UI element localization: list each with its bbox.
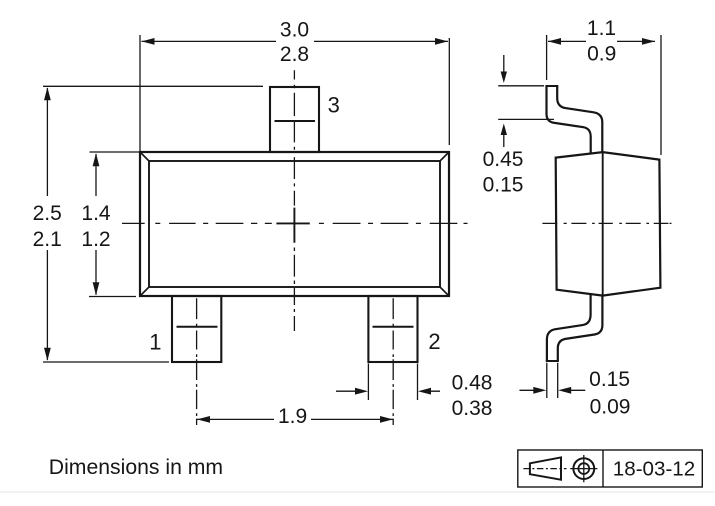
dimension 0.15/0.09 arrows (520, 387, 586, 394)
extension line top of 2.5 dim (43, 85, 263, 87)
svg-text:3.0: 3.0 (280, 19, 309, 42)
extension line pin 2 left edge (368, 364, 417, 401)
pin number 2 (428, 329, 440, 354)
package body front view outer outline (140, 152, 449, 296)
dimension 1.9 line (197, 416, 393, 423)
svg-text:0.15: 0.15 (483, 174, 524, 197)
caption Dimensions in mm (49, 456, 223, 479)
pin number 3 (328, 92, 340, 117)
extension line bottom of 2.5 dim (43, 361, 169, 363)
pin 3 / body vertical centerline (293, 70, 295, 331)
svg-text:2.5: 2.5 (33, 202, 62, 225)
pin 1 (172, 296, 221, 362)
pin 1 centerline (196, 298, 198, 425)
date 18-03-12 (613, 458, 695, 481)
label 0.9 (587, 43, 616, 66)
svg-text:1: 1 (149, 330, 161, 355)
svg-text:18-03-12: 18-03-12 (613, 458, 695, 481)
svg-text:0.9: 0.9 (587, 43, 616, 66)
dimension 1.4/1.2 line (93, 153, 100, 295)
label 0.09 (590, 396, 631, 419)
dimension 1.1/0.9 line (548, 38, 655, 45)
label 2.1 (33, 228, 62, 251)
extension line bottom of 1.4 dim (89, 296, 136, 298)
svg-text:0.45: 0.45 (483, 148, 524, 171)
label 2.8 (280, 43, 309, 66)
svg-text:1.2: 1.2 (81, 228, 110, 251)
dimension 2.5/2.1 line (44, 87, 51, 360)
svg-text:1.4: 1.4 (81, 202, 111, 225)
side view mold parting line (602, 152, 604, 296)
svg-text:0.38: 0.38 (452, 397, 493, 420)
pin 2 tick mark (373, 326, 414, 328)
extension line right of 1.1 dim (660, 35, 662, 155)
dimension 0.48/0.38 arrows (336, 388, 440, 395)
extension lines lead tip edges (547, 363, 558, 398)
svg-text:1.1: 1.1 (587, 17, 616, 40)
extension line lead top (498, 85, 544, 87)
svg-text:Dimensions in mm: Dimensions in mm (49, 456, 223, 479)
svg-text:0.15: 0.15 (589, 368, 630, 391)
extension line left of 3.0 dim (139, 35, 141, 151)
label 1.2 (81, 228, 110, 251)
svg-text:2.8: 2.8 (280, 43, 309, 66)
pin 3 tick mark (275, 120, 316, 122)
pin 2 (368, 296, 417, 362)
side view bottom lead (gull wing) (546, 294, 603, 361)
label 1.4 (81, 202, 111, 225)
pin 1 tick mark (177, 326, 218, 328)
label 0.15 right (589, 368, 630, 391)
dimension 3.0/2.8 line (142, 38, 449, 45)
center cross mark (276, 208, 309, 243)
projection symbol cone (523, 457, 566, 479)
side view horizontal centerline (542, 222, 671, 224)
package body front view inner mold line (140, 152, 449, 296)
faint page separator line (0, 491, 715, 493)
svg-text:2.1: 2.1 (33, 228, 62, 251)
svg-text:2: 2 (428, 329, 440, 354)
pin 2 centerline (392, 298, 394, 425)
svg-text:0.48: 0.48 (452, 372, 493, 395)
label 3.0 (280, 19, 309, 42)
label 0.45 (483, 148, 524, 171)
dimension 0.45/0.15 arrows (501, 55, 507, 147)
label 1.1 (587, 17, 616, 40)
label 2.5 (33, 202, 62, 225)
svg-text:0.09: 0.09 (590, 396, 631, 419)
body horizontal centerline (122, 222, 468, 224)
pin 3 (270, 87, 319, 152)
side view top lead (gull wing) (545, 86, 602, 153)
pin number 1 (149, 330, 161, 355)
projection symbol circles (570, 455, 597, 482)
label 1.9 (278, 405, 307, 428)
title block box (518, 450, 703, 487)
extension line right of 3.0 dim (448, 38, 450, 145)
extension line top of 1.4 dim (90, 151, 140, 153)
side view body outline (556, 152, 661, 296)
extension line left of 1.1 dim (546, 35, 548, 80)
extension line lead underside (498, 118, 554, 120)
label 0.48 (452, 372, 493, 395)
svg-text:3: 3 (328, 92, 340, 117)
label 0.15 left (483, 174, 524, 197)
label 0.38 (452, 397, 493, 420)
svg-text:1.9: 1.9 (278, 405, 307, 428)
